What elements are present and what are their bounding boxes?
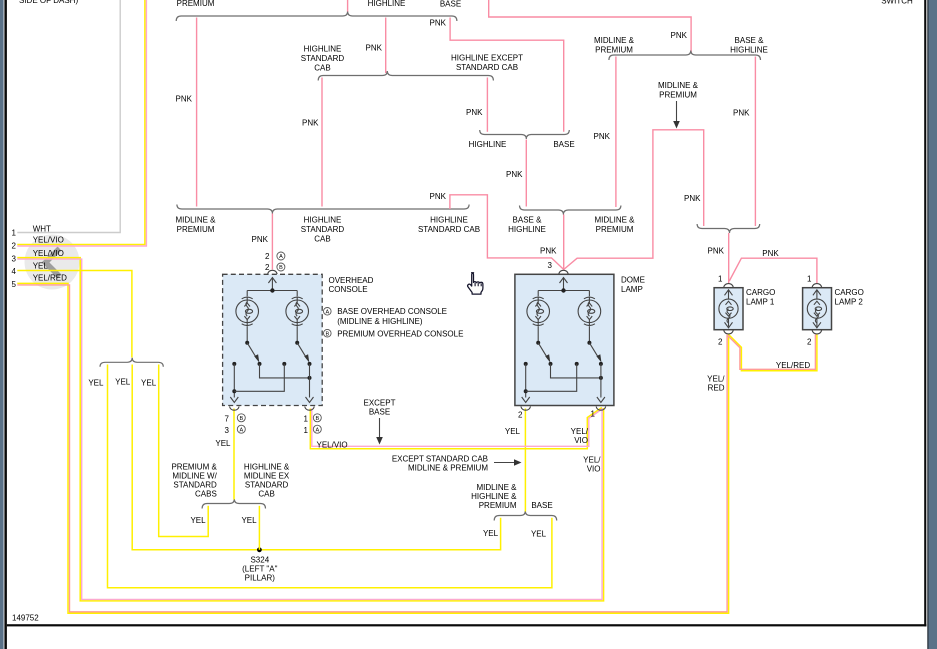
console lamp right — [286, 296, 309, 326]
svg-text:LAMP 1: LAMP 1 — [746, 298, 775, 307]
wire PNK midline&premium to dome brace — [615, 57, 617, 208]
svg-text:MIDLINE &: MIDLINE & — [594, 36, 635, 45]
svg-text:PNK: PNK — [302, 119, 319, 128]
wire YEL middle leg S324 run — [132, 365, 500, 550]
svg-text:2: 2 — [265, 263, 270, 272]
wire YEL console pin to brace B10 — [233, 409, 235, 500]
svg-text:A: A — [239, 427, 243, 433]
svg-text:BASE: BASE — [531, 501, 552, 510]
svg-text:PREMIUM: PREMIUM — [596, 225, 634, 234]
console lamp left leads — [246, 291, 248, 297]
svg-text:1: 1 — [12, 229, 17, 238]
svg-text:3: 3 — [12, 255, 17, 264]
wire PNK highline branch — [385, 18, 387, 74]
overhead console box — [223, 274, 323, 405]
svg-text:HIGHLINE: HIGHLINE — [304, 45, 342, 54]
wire YEL right leg to console brace — [159, 365, 209, 537]
svg-text:PREMIUM: PREMIUM — [479, 501, 517, 510]
legend B premium overhead console — [324, 329, 332, 337]
brace B2 highline split — [318, 71, 493, 81]
wire PNK dome lamp feed — [563, 215, 565, 270]
svg-text:5: 5 — [12, 280, 17, 289]
svg-text:PNK: PNK — [430, 192, 447, 201]
svg-text:YEL: YEL — [33, 262, 49, 271]
svg-text:A: A — [315, 427, 319, 433]
dome bottom connector cups — [521, 407, 531, 411]
svg-text:HIGHLINE: HIGHLINE — [469, 140, 507, 149]
cargo2 internal lamp — [813, 290, 821, 296]
wire PNK premium branch — [196, 18, 198, 207]
brace B7 cargo feed join — [697, 224, 760, 233]
dome lamp left leads — [537, 291, 539, 297]
cargo lamp 2 box — [803, 288, 832, 330]
svg-text:PREMIUM: PREMIUM — [177, 225, 215, 234]
legend A base overhead console — [324, 308, 332, 316]
wire PNK from switch (left feed) — [347, 0, 349, 12]
right frame line — [924, 0, 926, 626]
svg-text:YEL/RED: YEL/RED — [33, 274, 67, 283]
svg-text:PNK: PNK — [252, 235, 269, 244]
dome lamp box — [515, 274, 614, 405]
svg-text:2: 2 — [12, 242, 17, 251]
left frame line — [4, 0, 7, 649]
console top connector cup — [268, 270, 278, 274]
svg-text:CARGO: CARGO — [746, 288, 775, 297]
svg-text:YEL/: YEL/ — [707, 375, 725, 384]
svg-text:149752: 149752 — [12, 614, 39, 623]
wire YEL/VIO pin2 to top (violet tracer) — [17, 0, 146, 246]
svg-text:YEL: YEL — [190, 516, 206, 525]
wire YEL/VIO console pin1 to dome pin1 (yellow) — [310, 408, 602, 449]
svg-text:YEL: YEL — [241, 516, 257, 525]
svg-text:(MIDLINE & HIGHLINE): (MIDLINE & HIGHLINE) — [337, 317, 423, 326]
svg-text:PREMIUM: PREMIUM — [595, 46, 633, 55]
console lamp right leads — [296, 291, 298, 297]
wire YEL dome pin2 to brace B9 — [524, 409, 526, 512]
wire PNK highline std cab to dome (rising corner) — [450, 195, 564, 270]
cargo2 top connector cup — [812, 284, 822, 288]
svg-text:CAB: CAB — [314, 235, 330, 244]
wire YEL/RED cargo1 to cargo2 (yellow) — [729, 335, 817, 371]
svg-text:HIGHLINE: HIGHLINE — [430, 216, 468, 225]
dome contact terminals — [524, 362, 528, 366]
wire PNK base branch — [450, 18, 564, 132]
svg-text:STANDARD: STANDARD — [301, 54, 345, 63]
console internal feed arrow — [271, 279, 273, 291]
console internal wiring — [233, 364, 235, 398]
brace B1 premium/highline/base split — [176, 12, 457, 22]
wire PNK midline&premium right arm to dome — [564, 130, 704, 270]
wire YEL left leg to base leg (bottom run) — [108, 365, 552, 588]
svg-text:BASE OVERHEAD CONSOLE: BASE OVERHEAD CONSOLE — [337, 307, 447, 316]
cargo1 internal lamp — [725, 290, 733, 296]
mouse cursor — [468, 273, 483, 294]
svg-text:2: 2 — [518, 411, 523, 420]
svg-text:MIDLINE EX: MIDLINE EX — [244, 472, 290, 481]
dome switch blade left — [538, 343, 548, 359]
svg-text:4: 4 — [12, 267, 17, 276]
svg-text:PNK: PNK — [430, 19, 447, 28]
wire YEL/VIO pin2 to top (yellow) — [17, 0, 145, 245]
svg-text:YEL: YEL — [215, 439, 231, 448]
svg-text:YEL: YEL — [141, 379, 157, 388]
svg-text:PILLAR): PILLAR) — [245, 574, 276, 583]
wire PNK cargo lamp 2 branch — [729, 258, 817, 284]
svg-text:2: 2 — [807, 338, 812, 347]
svg-text:OVERHEAD: OVERHEAD — [329, 276, 374, 285]
svg-text:DOME: DOME — [621, 276, 645, 285]
svg-text:SIDE OF DASH): SIDE OF DASH) — [19, 0, 78, 5]
svg-text:YEL/VIO: YEL/VIO — [33, 236, 64, 245]
svg-text:EXCEPT STANDARD CAB: EXCEPT STANDARD CAB — [392, 455, 488, 464]
svg-text:(LEFT "A": (LEFT "A" — [242, 565, 277, 574]
svg-text:STANDARD: STANDARD — [173, 481, 217, 490]
brace B8 three yel split — [100, 358, 163, 367]
svg-text:B: B — [325, 331, 329, 337]
svg-text:B: B — [239, 416, 243, 422]
svg-text:STANDARD: STANDARD — [245, 481, 289, 490]
svg-text:BASE: BASE — [553, 140, 574, 149]
svg-text:CARGO: CARGO — [835, 288, 864, 297]
brace B10 console yel split — [202, 499, 265, 509]
bottom frame line — [7, 624, 927, 626]
svg-text:STANDARD: STANDARD — [301, 225, 345, 234]
dome internal wiring — [525, 364, 527, 398]
svg-text:RED: RED — [708, 384, 725, 393]
svg-text:HIGHLINE: HIGHLINE — [368, 0, 406, 8]
brace B9 dome yel split — [494, 511, 557, 521]
dome internal bus — [538, 290, 589, 292]
brace B5 midline&premium / base&highline split — [609, 51, 761, 61]
console switch blade left — [247, 343, 257, 359]
svg-text:PNK: PNK — [366, 44, 383, 53]
dome top connector cup — [559, 270, 569, 274]
svg-text:3: 3 — [225, 426, 230, 435]
svg-text:BASE &: BASE & — [513, 216, 543, 225]
svg-text:S324: S324 — [250, 556, 269, 565]
svg-text:BASE: BASE — [369, 408, 390, 417]
svg-text:B: B — [279, 265, 283, 271]
svg-text:BASE &: BASE & — [735, 36, 765, 45]
svg-text:PNK: PNK — [684, 194, 701, 203]
arrow except standard cab — [494, 462, 517, 464]
svg-text:EXCEPT: EXCEPT — [363, 399, 395, 408]
svg-text:STANDARD CAB: STANDARD CAB — [456, 63, 518, 72]
wire PNK base&highline combined — [525, 140, 527, 207]
svg-text:3: 3 — [548, 261, 553, 270]
svg-text:PNK: PNK — [176, 95, 193, 104]
dome lamp left — [527, 296, 550, 326]
back nav overlay circle — [25, 235, 80, 290]
svg-text:1: 1 — [718, 275, 723, 284]
dome lamp right leads — [588, 291, 590, 297]
console switch blade right — [297, 343, 307, 359]
left panel bar — [0, 0, 4, 649]
wire WHT pin1 to top — [17, 0, 120, 233]
console bottom connector cups — [230, 407, 240, 411]
wire PNK base&highline to cargo brace — [754, 57, 756, 227]
svg-text:1: 1 — [304, 415, 309, 424]
cargo1 bottom connector cup — [724, 330, 734, 334]
svg-text:CONSOLE: CONSOLE — [329, 285, 368, 294]
arrow to midline&premium wire — [676, 101, 678, 125]
svg-text:PREMIUM: PREMIUM — [177, 0, 215, 8]
right panel bar — [929, 0, 937, 649]
svg-text:1: 1 — [591, 410, 596, 419]
svg-text:MIDLINE &: MIDLINE & — [594, 216, 635, 225]
svg-text:PNK: PNK — [708, 247, 725, 256]
svg-text:B: B — [315, 416, 319, 422]
svg-text:PNK: PNK — [466, 108, 483, 117]
svg-text:A: A — [279, 254, 283, 260]
svg-text:VIO: VIO — [574, 436, 588, 445]
dome internal feed arrow — [563, 279, 565, 291]
svg-text:HIGHLINE: HIGHLINE — [730, 46, 768, 55]
svg-text:VIO: VIO — [587, 465, 601, 474]
brace B3 highline/base join — [480, 130, 570, 139]
svg-text:HIGHLINE: HIGHLINE — [508, 225, 546, 234]
svg-text:MIDLINE &: MIDLINE & — [476, 483, 517, 492]
wire YEL/VIO pin3 to dome pin1 (violet tracer) — [17, 259, 602, 599]
svg-text:YEL: YEL — [505, 427, 521, 436]
svg-text:YEL/: YEL/ — [583, 456, 601, 465]
wire YEL pin4 to brace B8 — [17, 271, 132, 358]
wire YEL/RED pin5 to cargo lamp 1 (yellow) — [17, 283, 728, 613]
svg-text:PREMIUM &: PREMIUM & — [171, 463, 217, 472]
brace B6 dome lamp feed join — [520, 206, 621, 215]
wire YEL/RED cargo1 to cargo2 (red tracer) — [728, 335, 816, 370]
svg-text:HIGHLINE EXCEPT: HIGHLINE EXCEPT — [451, 54, 523, 63]
wire PNK highline standard cab — [321, 78, 323, 207]
svg-text:HIGHLINE &: HIGHLINE & — [244, 463, 290, 472]
svg-text:YEL: YEL — [88, 379, 104, 388]
wire YEL/VIO pin3 to dome pin1 (yellow) — [17, 258, 603, 601]
svg-text:SWITCH: SWITCH — [881, 0, 913, 6]
dome switch blade right — [589, 343, 599, 359]
wire YEL/VIO console pin1 to dome pin1 (violet tracer) — [312, 409, 603, 447]
svg-text:PNK: PNK — [506, 170, 523, 179]
svg-text:YEL: YEL — [115, 378, 131, 387]
console internal bus — [247, 290, 297, 292]
svg-text:YEL/RED: YEL/RED — [776, 361, 810, 370]
wire YEL/RED pin5 to cargo lamp 1 (red tracer) — [17, 285, 727, 612]
svg-text:LAMP 2: LAMP 2 — [835, 298, 864, 307]
wire PNK highline except standard cab — [486, 78, 488, 132]
svg-text:BASE: BASE — [440, 0, 461, 9]
svg-text:STANDARD CAB: STANDARD CAB — [418, 225, 480, 234]
arrow except base — [379, 418, 381, 440]
wire PNK cargo lamp 1 feed — [728, 233, 730, 284]
cargo lamp 1 box — [714, 288, 743, 330]
splice S324 — [257, 547, 262, 552]
svg-text:YEL/VIO: YEL/VIO — [317, 440, 348, 449]
brace B4 overhead console feed join — [177, 205, 469, 214]
svg-text:1: 1 — [304, 426, 309, 435]
svg-text:CABS: CABS — [195, 490, 217, 499]
svg-text:CAB: CAB — [314, 64, 330, 73]
svg-text:7: 7 — [225, 415, 230, 424]
svg-text:PNK: PNK — [671, 31, 688, 40]
svg-text:MIDLINE &: MIDLINE & — [175, 216, 216, 225]
svg-text:MIDLINE W/: MIDLINE W/ — [172, 472, 217, 481]
svg-text:A: A — [325, 309, 329, 315]
svg-text:PNK: PNK — [540, 247, 557, 256]
svg-text:PREMIUM: PREMIUM — [659, 91, 697, 100]
wire PNK overhead console feed — [271, 214, 273, 270]
svg-text:MIDLINE &: MIDLINE & — [658, 81, 699, 90]
console lamp left — [236, 296, 259, 326]
svg-text:1: 1 — [807, 275, 812, 284]
right inner dark line — [927, 0, 928, 649]
wire YEL brace B10 right leg to S324 — [258, 506, 260, 550]
svg-text:LAMP: LAMP — [621, 285, 643, 294]
svg-text:YEL/VIO: YEL/VIO — [33, 249, 64, 258]
svg-text:YEL: YEL — [483, 529, 499, 538]
cargo2 bottom connector cup — [812, 330, 822, 334]
svg-text:2: 2 — [265, 252, 270, 261]
wire PNK from switch (right feed) — [489, 0, 691, 53]
svg-text:PNK: PNK — [733, 109, 750, 118]
svg-text:YEL: YEL — [531, 530, 547, 539]
cargo1 top connector cup — [724, 284, 734, 288]
svg-text:PREMIUM OVERHEAD CONSOLE: PREMIUM OVERHEAD CONSOLE — [337, 330, 463, 339]
svg-text:2: 2 — [718, 338, 723, 347]
svg-text:HIGHLINE &: HIGHLINE & — [471, 492, 517, 501]
back nav chevron — [46, 249, 60, 277]
svg-text:PNK: PNK — [762, 249, 779, 258]
svg-text:PNK: PNK — [594, 132, 611, 141]
svg-text:MIDLINE & PREMIUM: MIDLINE & PREMIUM — [408, 464, 488, 473]
svg-text:CAB: CAB — [258, 490, 274, 499]
console contact terminals — [232, 362, 236, 366]
svg-text:HIGHLINE: HIGHLINE — [304, 216, 342, 225]
dome lamp right — [578, 296, 601, 326]
svg-text:YEL/: YEL/ — [571, 427, 589, 436]
